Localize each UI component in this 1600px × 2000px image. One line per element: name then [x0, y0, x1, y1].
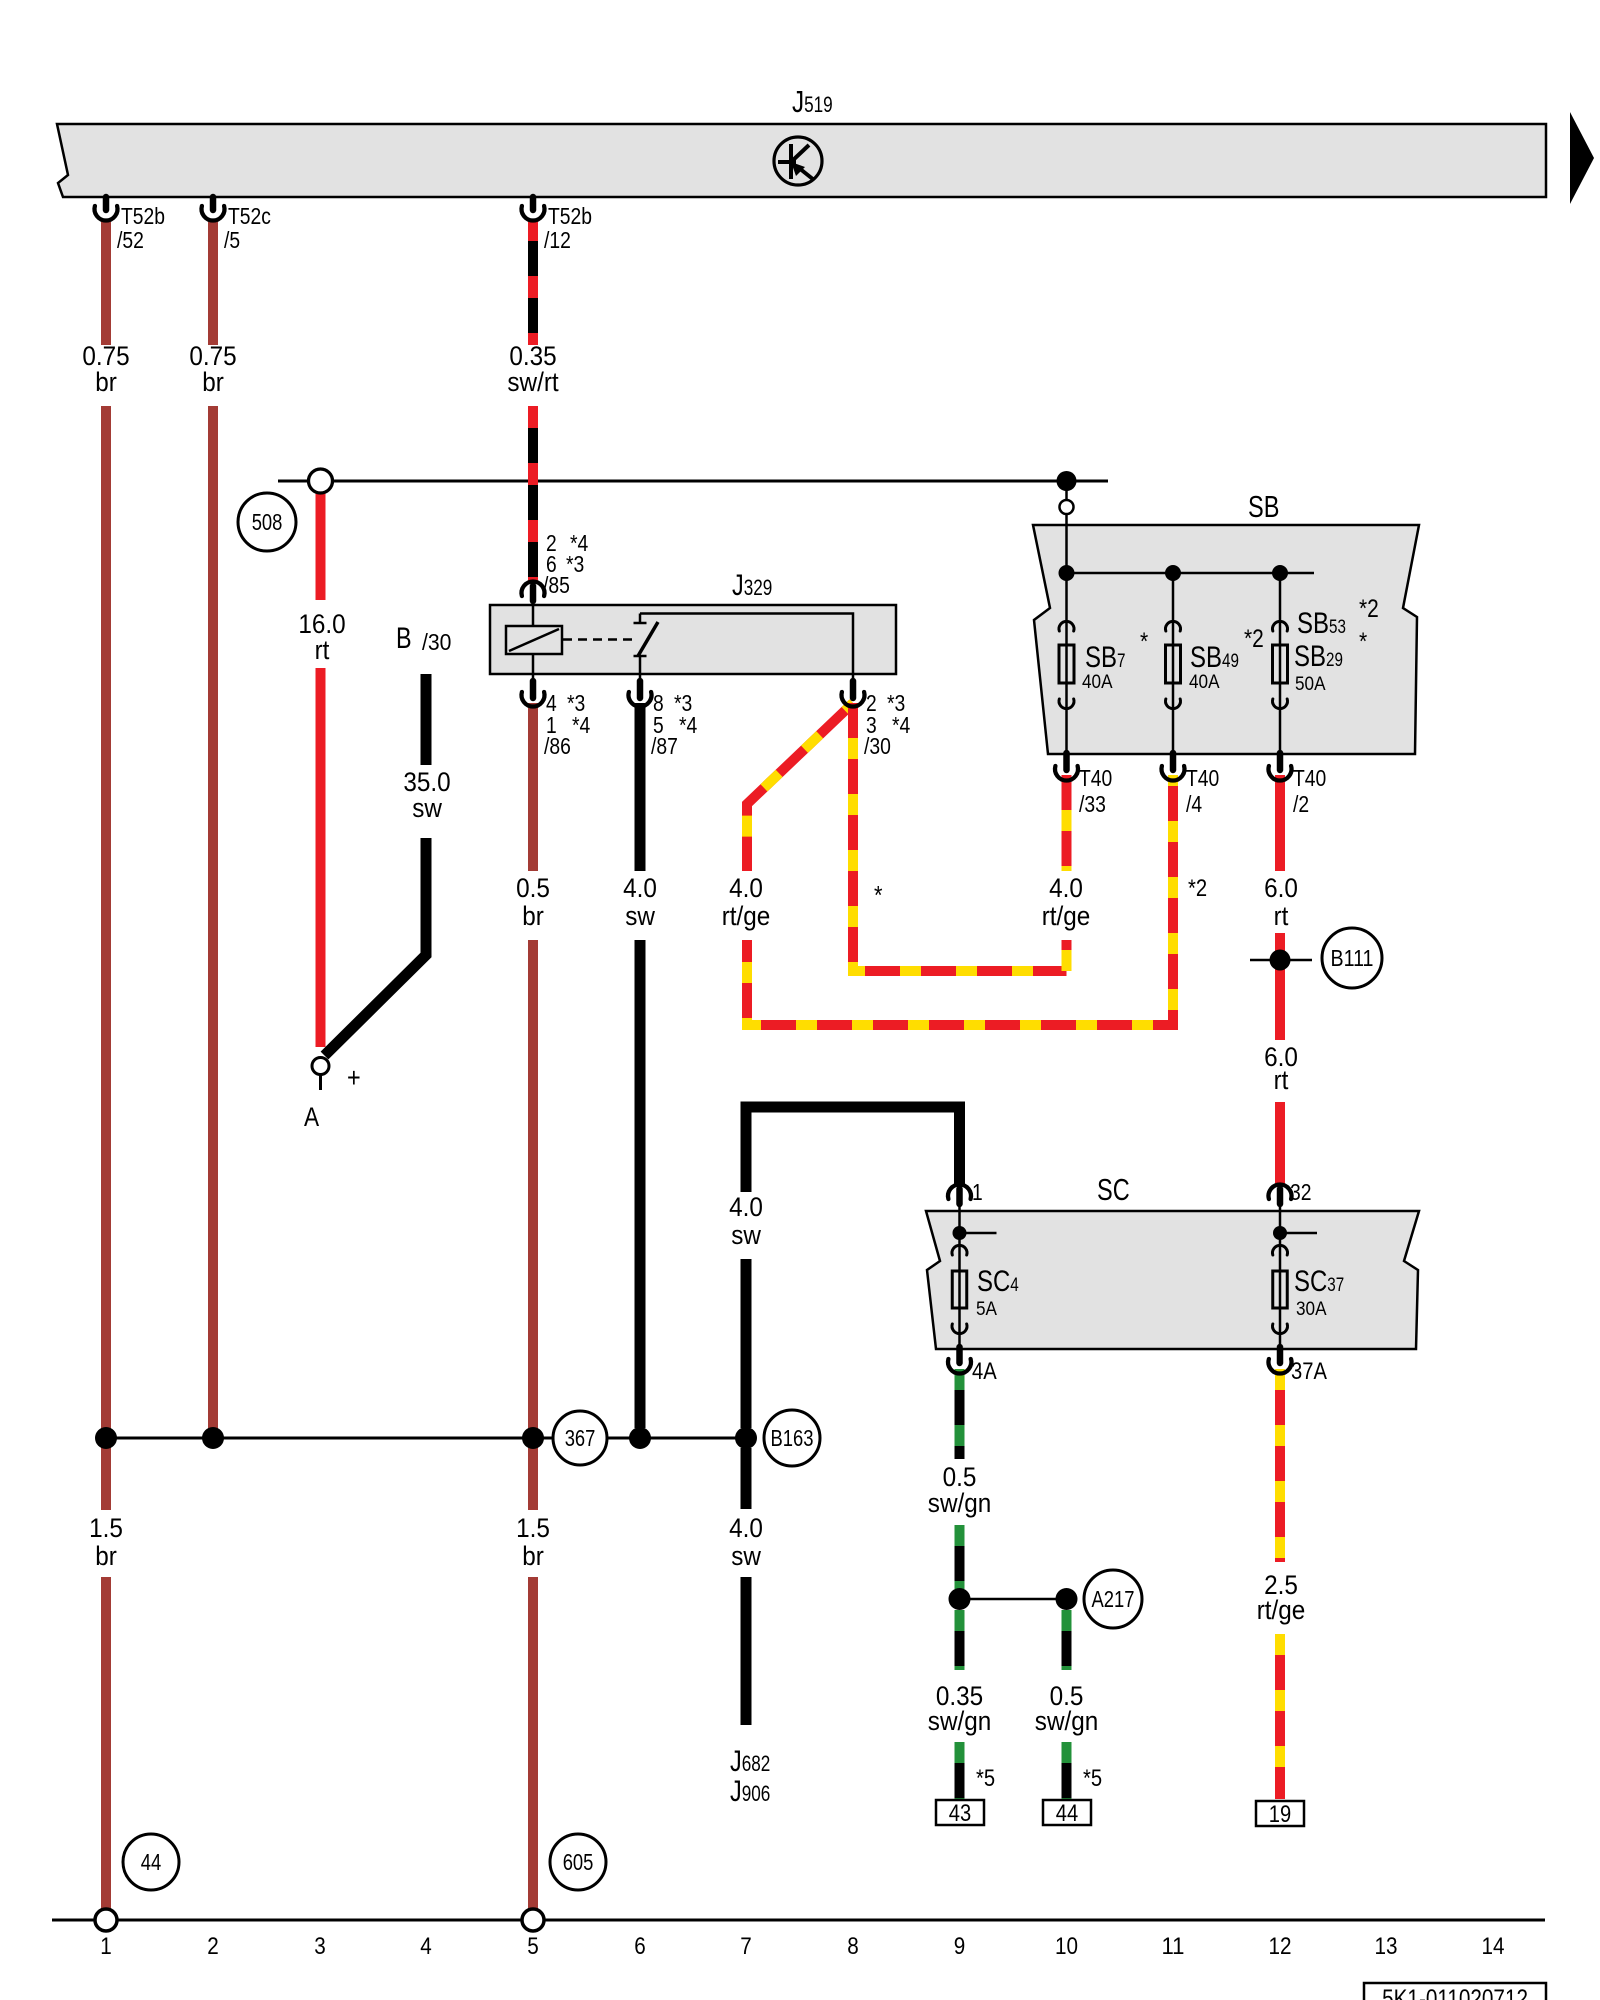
svg-text:4.0: 4.0 [1049, 873, 1083, 903]
svg-text:508: 508 [252, 509, 283, 535]
svg-text:40A: 40A [1082, 671, 1113, 693]
svg-text:sw/rt: sw/rt [507, 367, 559, 397]
svg-text:*5: *5 [976, 1765, 995, 1792]
svg-text:*2: *2 [1359, 595, 1379, 623]
svg-text:1: 1 [100, 1933, 112, 1960]
svg-text:4: 4 [1010, 1275, 1019, 1296]
svg-text:J: J [792, 84, 804, 119]
svg-text:B111: B111 [1331, 945, 1374, 971]
svg-text:37: 37 [1327, 1275, 1344, 1296]
svg-text:32: 32 [1290, 1179, 1312, 1205]
svg-text:SB: SB [1294, 640, 1326, 673]
svg-text:5A: 5A [976, 1298, 997, 1320]
svg-text:8: 8 [847, 1933, 859, 1960]
svg-text:br: br [522, 901, 544, 931]
svg-text:50A: 50A [1295, 673, 1326, 695]
svg-text:*2: *2 [1188, 875, 1207, 902]
svg-text:br: br [522, 1541, 544, 1571]
svg-text:sw/gn: sw/gn [928, 1706, 992, 1736]
svg-text:SC: SC [977, 1265, 1010, 1298]
svg-text:/52: /52 [117, 227, 144, 253]
svg-text:J: J [732, 569, 744, 602]
svg-text:T52c: T52c [228, 203, 271, 229]
svg-text:4.0: 4.0 [729, 1192, 763, 1222]
svg-text:7: 7 [1117, 651, 1126, 672]
svg-text:T40: T40 [1186, 765, 1219, 791]
svg-text:br: br [95, 367, 117, 397]
svg-text:906: 906 [742, 1781, 771, 1806]
svg-text:SC: SC [1294, 1265, 1327, 1298]
svg-text:37A: 37A [1291, 1358, 1327, 1385]
svg-text:SB: SB [1190, 641, 1222, 674]
svg-text:4: 4 [420, 1933, 432, 1960]
svg-text:J: J [730, 1775, 742, 1808]
svg-text:SB: SB [1085, 641, 1117, 674]
svg-text:*4: *4 [572, 712, 590, 738]
svg-text:519: 519 [804, 92, 833, 117]
svg-text:rt/ge: rt/ge [1257, 1595, 1306, 1625]
svg-text:/33: /33 [1079, 791, 1106, 817]
svg-text:sw/gn: sw/gn [928, 1488, 992, 1518]
svg-text:5: 5 [527, 1933, 539, 1960]
svg-text:*: * [1359, 628, 1367, 656]
svg-text:11: 11 [1162, 1933, 1185, 1960]
svg-text:T52b: T52b [121, 203, 165, 229]
svg-text:sw: sw [412, 793, 442, 823]
svg-text:/12: /12 [544, 227, 571, 253]
svg-text:br: br [95, 1541, 117, 1571]
svg-text:/5: /5 [224, 227, 240, 253]
svg-text:rt: rt [315, 635, 330, 665]
svg-text:T52b: T52b [548, 203, 592, 229]
svg-text:5K1-011020712: 5K1-011020712 [1382, 1985, 1528, 2000]
svg-text:44: 44 [141, 1849, 162, 1875]
svg-text:13: 13 [1375, 1933, 1398, 1960]
svg-text:605: 605 [563, 1849, 594, 1875]
svg-text:br: br [202, 367, 224, 397]
svg-text:SB: SB [1297, 607, 1329, 640]
svg-text:4.0: 4.0 [623, 873, 657, 903]
svg-text:/30: /30 [422, 629, 451, 655]
svg-text:T40: T40 [1079, 765, 1112, 791]
svg-text:rt/ge: rt/ge [1042, 901, 1091, 931]
svg-text:A: A [304, 1102, 319, 1132]
svg-text:rt/ge: rt/ge [722, 901, 771, 931]
svg-text:1.5: 1.5 [516, 1513, 550, 1543]
svg-text:*2: *2 [1244, 625, 1264, 653]
svg-text:14: 14 [1482, 1933, 1505, 1960]
svg-text:3: 3 [314, 1933, 326, 1960]
svg-text:329: 329 [744, 575, 773, 600]
svg-text:/87: /87 [651, 733, 678, 759]
svg-text:*5: *5 [1083, 1765, 1102, 1792]
svg-text:/86: /86 [544, 733, 571, 759]
svg-text:4.0: 4.0 [729, 1513, 763, 1543]
svg-text:/4: /4 [1186, 791, 1202, 817]
svg-text:*4: *4 [679, 712, 697, 738]
svg-text:1: 1 [972, 1179, 983, 1205]
svg-text:*: * [1140, 628, 1148, 656]
svg-text:4A: 4A [972, 1358, 997, 1385]
svg-text:sw: sw [731, 1541, 761, 1571]
svg-text:19: 19 [1269, 1801, 1291, 1828]
svg-text:/30: /30 [864, 733, 891, 759]
svg-text:+: + [347, 1062, 361, 1093]
svg-text:A217: A217 [1092, 1586, 1135, 1612]
svg-text:53: 53 [1329, 617, 1346, 638]
svg-text:682: 682 [742, 1751, 771, 1776]
svg-text:44: 44 [1056, 1800, 1078, 1827]
svg-text:40A: 40A [1189, 671, 1220, 693]
svg-text:7: 7 [740, 1933, 752, 1960]
svg-text:SB: SB [1248, 489, 1279, 524]
svg-text:/85: /85 [543, 572, 570, 598]
svg-text:43: 43 [949, 1800, 971, 1827]
svg-text:10: 10 [1055, 1933, 1078, 1960]
svg-text:29: 29 [1326, 650, 1343, 671]
svg-text:J: J [730, 1745, 742, 1778]
svg-text:9: 9 [954, 1933, 966, 1960]
svg-text:2: 2 [207, 1933, 219, 1960]
svg-text:rt: rt [1274, 1065, 1289, 1095]
svg-text:B: B [396, 622, 412, 655]
svg-text:49: 49 [1222, 651, 1239, 672]
svg-text:0.5: 0.5 [516, 873, 550, 903]
svg-text:4.0: 4.0 [729, 873, 763, 903]
svg-text:6: 6 [634, 1933, 646, 1960]
svg-text:6.0: 6.0 [1264, 873, 1298, 903]
svg-text:30A: 30A [1296, 1298, 1327, 1320]
svg-text:SC: SC [1097, 1172, 1130, 1207]
svg-text:sw: sw [625, 901, 655, 931]
svg-text:rt: rt [1274, 901, 1289, 931]
svg-text:/2: /2 [1293, 791, 1309, 817]
svg-text:B163: B163 [771, 1425, 814, 1451]
svg-text:sw: sw [731, 1220, 761, 1250]
svg-text:T40: T40 [1293, 765, 1326, 791]
svg-text:1.5: 1.5 [89, 1513, 123, 1543]
svg-text:12: 12 [1269, 1933, 1292, 1960]
svg-text:sw/gn: sw/gn [1035, 1706, 1099, 1736]
svg-text:*4: *4 [892, 712, 910, 738]
svg-text:367: 367 [565, 1425, 596, 1451]
svg-text:*: * [874, 880, 883, 910]
